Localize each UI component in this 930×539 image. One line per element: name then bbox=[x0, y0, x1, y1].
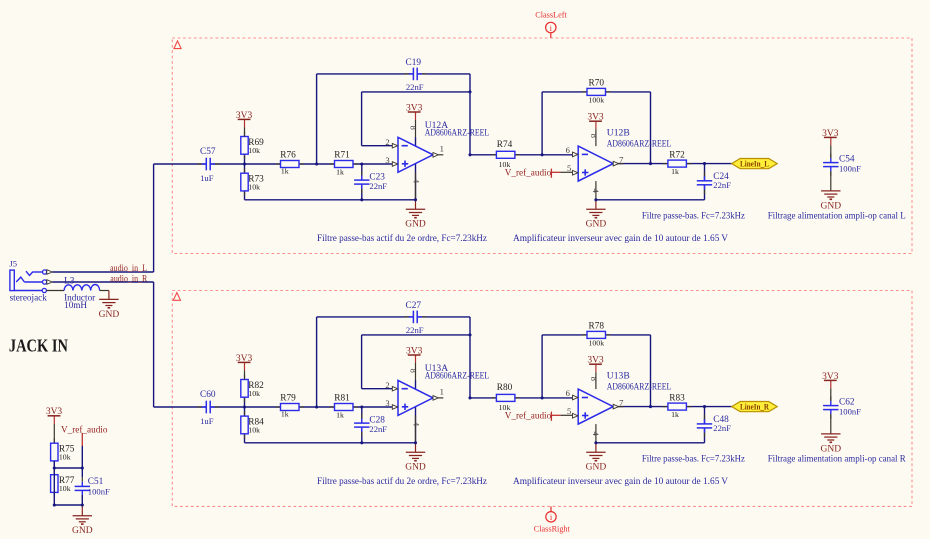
svg-text:1k: 1k bbox=[336, 167, 344, 176]
svg-text:Filtre passe-bas. Fc=7.23kHz: Filtre passe-bas. Fc=7.23kHz bbox=[642, 211, 745, 221]
svg-text:V_ref_audio: V_ref_audio bbox=[505, 411, 552, 421]
svg-text:Filtre passe-bas. Fc=7.23kHz: Filtre passe-bas. Fc=7.23kHz bbox=[642, 454, 745, 464]
svg-text:R74: R74 bbox=[497, 140, 513, 150]
svg-text:10k: 10k bbox=[248, 389, 260, 398]
svg-text:4: 4 bbox=[411, 422, 421, 427]
svg-text:LineIn_L: LineIn_L bbox=[740, 159, 769, 169]
svg-text:3V3: 3V3 bbox=[236, 354, 253, 364]
svg-text:audio_in_L: audio_in_L bbox=[110, 263, 147, 273]
svg-text:GND: GND bbox=[405, 463, 426, 473]
svg-text:2: 2 bbox=[385, 380, 389, 390]
svg-text:Amplificateur inverseur avec g: Amplificateur inverseur avec gain de 10 … bbox=[513, 233, 728, 243]
svg-text:8: 8 bbox=[589, 134, 599, 138]
svg-text:ClassRight: ClassRight bbox=[534, 524, 571, 534]
svg-text:100nF: 100nF bbox=[839, 164, 861, 174]
svg-text:22nF: 22nF bbox=[406, 82, 424, 92]
svg-text:R78: R78 bbox=[589, 322, 605, 332]
svg-text:3V3: 3V3 bbox=[587, 356, 604, 366]
svg-text:4: 4 bbox=[591, 189, 601, 194]
svg-text:1: 1 bbox=[440, 144, 444, 154]
svg-text:7: 7 bbox=[619, 154, 624, 164]
svg-text:3: 3 bbox=[385, 398, 389, 408]
svg-text:5: 5 bbox=[567, 406, 571, 416]
svg-text:10k: 10k bbox=[248, 146, 260, 155]
svg-text:C57: C57 bbox=[200, 147, 216, 157]
svg-text:V_ref_audio: V_ref_audio bbox=[505, 168, 552, 178]
svg-text:R79: R79 bbox=[280, 394, 296, 404]
svg-text:GND: GND bbox=[586, 463, 607, 473]
svg-text:Filtre passe-bas actif du 2e o: Filtre passe-bas actif du 2e ordre, Fc=7… bbox=[317, 233, 487, 243]
svg-text:5: 5 bbox=[567, 163, 571, 173]
svg-text:100nF: 100nF bbox=[88, 486, 110, 496]
svg-text:GND: GND bbox=[586, 220, 607, 230]
svg-text:Filtre passe-bas actif du 2e o: Filtre passe-bas actif du 2e ordre, Fc=7… bbox=[317, 476, 487, 486]
svg-text:10k: 10k bbox=[499, 403, 511, 412]
svg-text:J5: J5 bbox=[9, 259, 17, 269]
svg-text:1uF: 1uF bbox=[200, 173, 214, 183]
svg-text:Filtrage alimentation ampli-op: Filtrage alimentation ampli-op canal L bbox=[768, 211, 906, 221]
svg-text:R72: R72 bbox=[669, 150, 685, 160]
svg-text:3V3: 3V3 bbox=[406, 346, 423, 356]
svg-text:R81: R81 bbox=[334, 394, 350, 404]
svg-text:C60: C60 bbox=[200, 390, 216, 400]
svg-text:JACK IN: JACK IN bbox=[9, 335, 68, 355]
svg-text:2: 2 bbox=[385, 137, 389, 147]
svg-text:R76: R76 bbox=[280, 151, 296, 161]
svg-text:AD8606ARZ-REEL: AD8606ARZ-REEL bbox=[425, 371, 490, 381]
svg-text:10k: 10k bbox=[499, 160, 511, 169]
svg-text:GND: GND bbox=[72, 526, 93, 536]
svg-text:10k: 10k bbox=[59, 484, 71, 493]
svg-text:100k: 100k bbox=[589, 339, 605, 348]
svg-text:GND: GND bbox=[99, 310, 120, 320]
svg-text:ClassLeft: ClassLeft bbox=[535, 10, 567, 20]
svg-text:4: 4 bbox=[411, 179, 421, 184]
svg-text:C19: C19 bbox=[406, 58, 422, 68]
svg-text:AD8606ARZ-REEL: AD8606ARZ-REEL bbox=[607, 138, 672, 148]
svg-text:C27: C27 bbox=[406, 301, 422, 311]
svg-text:3V3: 3V3 bbox=[587, 113, 604, 123]
svg-text:8: 8 bbox=[589, 377, 599, 381]
svg-text:R71: R71 bbox=[334, 151, 350, 161]
svg-text:R80: R80 bbox=[497, 383, 513, 393]
svg-text:22nF: 22nF bbox=[406, 325, 424, 335]
svg-text:22nF: 22nF bbox=[713, 423, 731, 433]
svg-text:stereojack: stereojack bbox=[10, 292, 48, 302]
svg-text:6: 6 bbox=[566, 388, 571, 398]
svg-text:1k: 1k bbox=[336, 410, 344, 419]
svg-text:1k: 1k bbox=[671, 167, 679, 176]
svg-text:7: 7 bbox=[619, 397, 624, 407]
svg-text:3V3: 3V3 bbox=[406, 103, 423, 113]
svg-text:L3: L3 bbox=[64, 276, 75, 286]
svg-text:1uF: 1uF bbox=[200, 416, 214, 426]
svg-text:audio_in_R: audio_in_R bbox=[110, 273, 147, 283]
svg-text:Amplificateur inverseur avec g: Amplificateur inverseur avec gain de 10 … bbox=[513, 476, 728, 486]
svg-text:R83: R83 bbox=[669, 393, 685, 403]
svg-text:LineIn_R: LineIn_R bbox=[740, 402, 770, 412]
svg-text:100k: 100k bbox=[589, 96, 605, 105]
svg-text:3: 3 bbox=[385, 155, 389, 165]
svg-text:V_ref_audio: V_ref_audio bbox=[61, 425, 108, 435]
svg-text:100nF: 100nF bbox=[839, 407, 861, 417]
svg-text:AD8606ARZ-REEL: AD8606ARZ-REEL bbox=[425, 128, 490, 138]
svg-text:U13B: U13B bbox=[607, 370, 630, 381]
svg-text:8: 8 bbox=[408, 368, 418, 372]
svg-text:3V3: 3V3 bbox=[822, 372, 839, 382]
svg-text:22nF: 22nF bbox=[713, 180, 731, 190]
svg-text:AD8606ARZ-REEL: AD8606ARZ-REEL bbox=[607, 381, 672, 391]
svg-text:6: 6 bbox=[566, 145, 571, 155]
svg-text:3V3: 3V3 bbox=[236, 111, 253, 121]
svg-text:22nF: 22nF bbox=[369, 181, 387, 191]
svg-text:R70: R70 bbox=[589, 79, 605, 89]
svg-text:10mH: 10mH bbox=[64, 300, 87, 310]
svg-text:3V3: 3V3 bbox=[822, 129, 839, 139]
svg-text:10k: 10k bbox=[59, 452, 71, 461]
svg-text:U12B: U12B bbox=[607, 127, 630, 138]
svg-text:1k: 1k bbox=[281, 410, 289, 419]
svg-text:3V3: 3V3 bbox=[46, 407, 63, 417]
svg-text:GND: GND bbox=[405, 220, 426, 230]
svg-text:10k: 10k bbox=[248, 425, 260, 434]
svg-text:4: 4 bbox=[591, 432, 601, 437]
svg-text:22nF: 22nF bbox=[369, 424, 387, 434]
svg-text:8: 8 bbox=[408, 125, 418, 129]
svg-text:10k: 10k bbox=[248, 182, 260, 191]
svg-text:1: 1 bbox=[440, 387, 444, 397]
svg-text:1k: 1k bbox=[281, 167, 289, 176]
svg-text:1k: 1k bbox=[671, 410, 679, 419]
svg-text:Filtrage alimentation ampli-op: Filtrage alimentation ampli-op canal R bbox=[768, 454, 907, 464]
